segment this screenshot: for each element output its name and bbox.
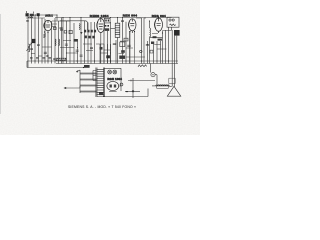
svg-text:ACR 1: ACR 1 <box>45 15 53 18</box>
node dot on bus row <box>53 58 55 60</box>
tube V2 envelope <box>97 19 105 33</box>
resistor hatched mid <box>74 39 78 42</box>
label RGN 1064 <box>107 77 122 81</box>
antenna terminal block <box>26 14 29 17</box>
blob cluster center low <box>100 47 103 50</box>
resistor R3 zigzag in box <box>170 24 176 26</box>
heater ladder rungs <box>80 73 97 92</box>
node F <box>162 32 163 33</box>
coil L1 <box>29 17 33 18</box>
capacitor C7 plates <box>121 21 124 22</box>
resistor R5 hatched <box>119 56 125 59</box>
box right mid <box>150 50 153 53</box>
svg-text:RGN 1064: RGN 1064 <box>107 77 122 81</box>
capacitor plates mid <box>127 45 130 46</box>
svg-text:SIEMENS S. A. - MOD. « T 540 F: SIEMENS S. A. - MOD. « T 540 FONO » <box>68 105 136 109</box>
output jack box <box>167 17 179 27</box>
wire capacitor pair long <box>136 18 146 64</box>
bus junction dots <box>34 60 169 61</box>
tube V1 envelope <box>44 20 52 33</box>
svg-text:RENS 1254: RENS 1254 <box>90 14 109 18</box>
mains tilde <box>126 90 128 94</box>
arrow into ladder <box>77 70 81 72</box>
jack circles <box>169 19 171 21</box>
wire pot link <box>111 28 116 30</box>
blob mid <box>121 50 125 53</box>
tube V4 envelope <box>155 16 163 33</box>
wire grid row <box>60 41 93 54</box>
wire verticals V2 zone <box>101 22 111 64</box>
svg-text:REN 904: REN 904 <box>123 14 137 18</box>
label RES 964 <box>152 14 166 18</box>
capacitor C9 plates <box>113 44 116 45</box>
capacitor C3 plates <box>60 28 63 29</box>
top bus wire <box>55 17 172 19</box>
wire V5 leads <box>119 68 121 91</box>
label ACR1 <box>45 15 53 18</box>
speaker drive wires <box>172 30 174 87</box>
wire bottom bus <box>97 89 148 97</box>
mains entry circle <box>120 83 123 86</box>
capacitor C4 box <box>69 30 72 33</box>
wire right sub-bus <box>150 31 172 38</box>
capacitor bank blocks <box>84 30 96 33</box>
component circle G <box>140 50 142 52</box>
choke coil L6 <box>150 28 151 37</box>
small resistor row rf1 <box>153 36 157 38</box>
capacitor C2c plates <box>37 45 40 46</box>
wire top distribution <box>26 17 45 19</box>
field coil humps <box>156 85 169 86</box>
lower-left return wire <box>27 61 84 68</box>
capacitor C8 plates <box>146 44 149 45</box>
wire mains vertical <box>125 78 140 98</box>
iron core coil block <box>32 39 35 43</box>
wire vertical x77.5 <box>77 39 79 64</box>
wire tube1 row links <box>52 21 70 24</box>
tube V3 lead dots <box>129 31 130 32</box>
wire curved drop <box>60 21 88 30</box>
capacitor C5 plates <box>65 44 68 45</box>
small resistor row rf2 <box>158 39 162 41</box>
wire tube1 top <box>56 15 58 21</box>
wire V3 lead drops <box>130 32 135 64</box>
capacitor C6c plates <box>90 48 93 49</box>
wire center low verticals <box>100 40 116 64</box>
wire right mid segs2 <box>154 45 166 50</box>
wire verticals right group <box>163 30 177 64</box>
wire coil to speaker <box>169 85 172 87</box>
coil L3 <box>55 39 56 46</box>
top bus junction dots <box>70 17 160 18</box>
transformer taps <box>93 71 97 81</box>
node D <box>62 17 63 18</box>
wire V1 right links <box>52 27 56 30</box>
wire choke vertical <box>149 21 151 64</box>
component block D <box>64 31 67 34</box>
component box H <box>120 42 125 47</box>
component row above bus left <box>30 58 51 59</box>
wire jack leads <box>169 27 172 37</box>
paper left edge artifact <box>0 14 2 114</box>
electrolytic circle <box>151 73 155 77</box>
coupling block <box>37 14 39 16</box>
wire top bench <box>128 80 155 82</box>
node I <box>103 96 104 97</box>
blob right mid <box>151 42 154 45</box>
wire verticals V3 zone <box>123 18 130 64</box>
node C <box>47 55 49 57</box>
rectifier tube V5 envelope <box>107 81 119 91</box>
resistor on bus hatched <box>56 58 66 60</box>
node E <box>149 20 150 21</box>
wire verticals left block <box>32 15 43 64</box>
resistor R1 (antenna series, hatched) <box>30 14 34 16</box>
mains lead arrow <box>64 86 80 89</box>
power transformer T1 core <box>96 68 105 98</box>
field coil frame <box>156 86 169 88</box>
dial lamp LP1 <box>108 70 112 74</box>
antenna tiny marks <box>27 11 34 14</box>
mesh junction dots <box>66 44 148 54</box>
loudspeaker cone <box>167 86 181 96</box>
capacitor C6 plates <box>76 50 79 51</box>
wire into coil <box>152 85 156 87</box>
variometer coil L2 with arrow <box>29 44 30 52</box>
resistor R4 hatched dark <box>174 30 180 36</box>
heater ladder vertical <box>79 70 81 93</box>
wire speaker top link <box>169 78 175 83</box>
main bus double wire lower <box>56 63 178 65</box>
wire verticals mid-left <box>45 18 62 64</box>
node under V1 <box>44 31 45 32</box>
potentiometer coil box <box>115 23 120 37</box>
resistor zigzag on lower bus <box>138 65 147 67</box>
coil L4 <box>59 39 60 46</box>
wire to field coil <box>155 75 157 85</box>
wire antenna row <box>34 14 58 16</box>
capacitor C2b plates <box>30 49 33 50</box>
coil L5 vertical bumps <box>79 24 80 30</box>
wire mid segs2 <box>119 41 140 57</box>
component cluster right of V2 <box>105 25 109 27</box>
node G <box>83 67 84 68</box>
main bus double wire upper <box>27 60 178 62</box>
wire right drop <box>150 64 152 73</box>
dark block below bus <box>84 65 90 68</box>
wire short segs left <box>31 47 52 56</box>
wire segs center <box>96 44 111 53</box>
capacitor C1 plates <box>26 20 29 21</box>
component arrow block <box>80 32 83 34</box>
node B <box>56 14 57 15</box>
capacitor C6b plates <box>80 55 83 56</box>
component hatched bottom <box>99 93 104 96</box>
tube V2 grid box <box>104 18 110 23</box>
wire verticals center <box>63 18 95 64</box>
dial lamp LP2 <box>113 70 117 74</box>
capacitor C2 plates <box>44 52 47 53</box>
node A <box>35 14 36 15</box>
component box mid <box>124 38 128 41</box>
resistor R2 zigzag below V1 <box>44 33 46 38</box>
wire mid right segs <box>139 41 161 64</box>
capacitor bank blocks row2 <box>85 36 95 39</box>
node H filled <box>131 90 134 93</box>
wire pot to bus <box>117 18 119 64</box>
grid box dots <box>105 20 109 22</box>
tube V3 envelope <box>129 19 136 33</box>
capacitor plates right of V1 <box>60 29 63 30</box>
wire: left vertical bus <box>27 13 29 68</box>
wire lamp feed <box>104 67 121 69</box>
label RENS 1254 <box>90 14 109 18</box>
label REN 904 <box>123 14 137 18</box>
